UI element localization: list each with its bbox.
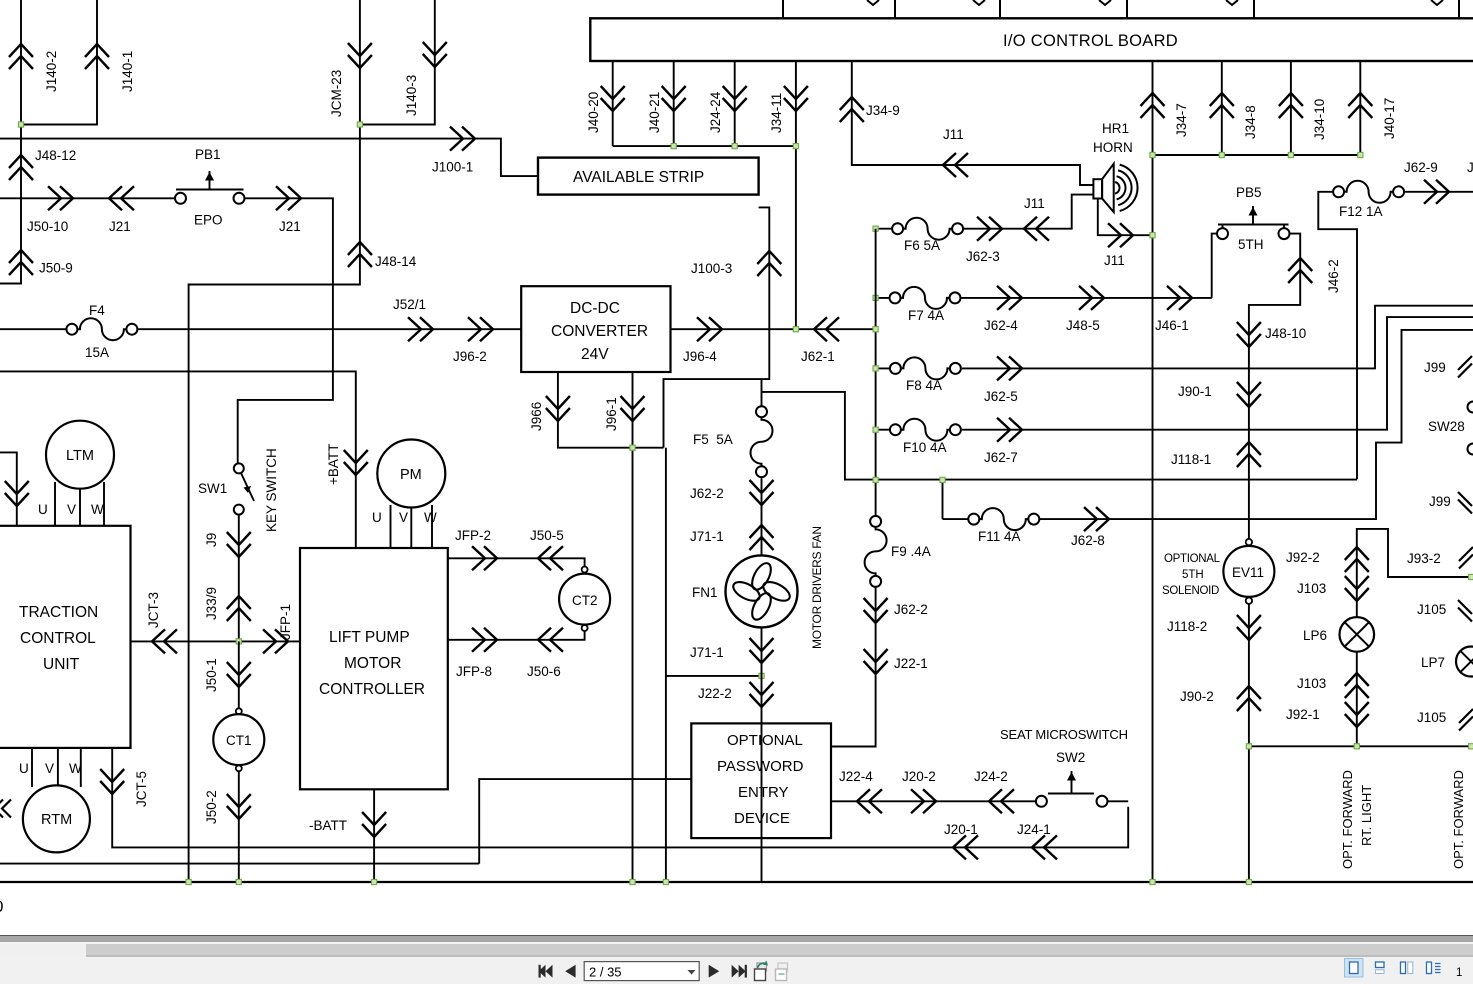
connector J34-8 chevron	[1210, 93, 1234, 118]
svg-text:EPO: EPO	[194, 213, 223, 228]
wire J34-10 column	[1290, 61, 1292, 155]
connector J93-2 edge marks	[1459, 547, 1473, 569]
fuse F4 15A	[66, 318, 137, 340]
connector J48-5 chevron	[1079, 286, 1104, 310]
speaker HR1 horn cone	[1102, 164, 1114, 212]
svg-text:1: 1	[1456, 967, 1462, 979]
connector JCT-5 chevron	[100, 769, 124, 794]
svg-text:J93-2: J93-2	[1407, 551, 1441, 566]
svg-text:U: U	[372, 510, 382, 525]
svg-text:J100-3: J100-3	[691, 261, 732, 276]
fuse F7 4A	[890, 287, 961, 309]
svg-text:J966: J966	[529, 402, 544, 431]
wire F8 row y=368.4	[876, 306, 1473, 369]
toolbar next button	[709, 965, 747, 978]
connector JFP-1 chevron	[263, 629, 288, 653]
svg-text:J34-10: J34-10	[1312, 99, 1327, 140]
svg-text:J99: J99	[1429, 494, 1451, 509]
svg-text:I/O CONTROL BOARD: I/O CONTROL BOARD	[1003, 32, 1178, 50]
svg-text:U: U	[19, 761, 29, 776]
svg-text:J90-2: J90-2	[1180, 689, 1214, 704]
svg-text:CT1: CT1	[226, 733, 252, 748]
svg-text:LP7: LP7	[1421, 655, 1445, 670]
svg-text:LP6: LP6	[1303, 628, 1327, 643]
connector J34-11 chevron	[784, 86, 808, 111]
svg-text:J50-2: J50-2	[204, 790, 219, 824]
svg-text:J62-3: J62-3	[966, 249, 1000, 264]
node fan junction	[759, 673, 764, 678]
svg-text:LIFT PUMP: LIFT PUMP	[329, 629, 410, 646]
node J34-11 junction on rail	[793, 327, 798, 332]
svg-text:J20-2: J20-2	[902, 769, 936, 784]
connector J62-9 chevron	[1424, 180, 1449, 204]
svg-text:F6 5A: F6 5A	[904, 238, 940, 253]
connector J40-17 chevron	[1348, 93, 1372, 118]
svg-text:J96-1: J96-1	[604, 397, 619, 431]
svg-text:J103: J103	[1297, 676, 1326, 691]
wire feeder bus vertical x=875.6	[875, 229, 877, 516]
svg-text:J140-3: J140-3	[404, 75, 419, 116]
wire J34-9 column and horn feed	[852, 61, 1094, 185]
svg-text:OPT. FORWARD: OPT. FORWARD	[1451, 770, 1466, 869]
svg-text:J118-1: J118-1	[1171, 452, 1211, 467]
wire EPO row y=198.3	[0, 197, 175, 199]
svg-text:MOTOR: MOTOR	[344, 655, 401, 672]
node strip bus junctions	[671, 144, 676, 149]
svg-text:J21: J21	[279, 219, 301, 234]
node junction J140	[18, 122, 23, 127]
node F8 feeder junction	[873, 366, 878, 371]
svg-text:FN1: FN1	[692, 585, 718, 600]
connector J22-4 chevron	[857, 789, 882, 813]
svg-text:J62-8: J62-8	[1071, 533, 1105, 548]
connector J11 right chevron below horn	[1108, 223, 1133, 247]
wire LTM U V W leads	[55, 482, 104, 526]
wire available strip bus y=146.1	[613, 145, 796, 147]
fuse F10 4A	[890, 419, 961, 441]
lamp LP6	[1340, 617, 1375, 652]
toolbar next-view icon disabled	[776, 963, 788, 981]
wire CT1 column	[238, 641, 240, 882]
svg-text:J46-1: J46-1	[1155, 318, 1189, 333]
svg-text:W: W	[69, 761, 82, 776]
wire JFP-8 row y=639.8	[448, 631, 585, 640]
connector J100-1 chevron	[450, 127, 475, 151]
box I/O CONTROL BOARD	[590, 18, 1473, 61]
svg-text:J9: J9	[204, 533, 219, 547]
svg-text:W: W	[91, 502, 104, 517]
svg-text:J100-1: J100-1	[432, 160, 473, 175]
connector J140-3 chevron	[423, 42, 447, 67]
connector LTM left chevron	[5, 481, 29, 506]
wire F10 row y=429.7	[876, 317, 1473, 430]
wire J40-21 column	[673, 61, 675, 146]
wire J140-1 column x=97	[21, 0, 97, 125]
wire DC-DC outputs J966 J96-1	[558, 372, 664, 882]
svg-text:5TH: 5TH	[1182, 569, 1204, 581]
svg-text:J48-5: J48-5	[1066, 318, 1100, 333]
svg-text:DEVICE: DEVICE	[734, 810, 790, 827]
fuse F12 1A	[1333, 181, 1404, 203]
motor LTM	[46, 421, 114, 489]
svg-text:0: 0	[0, 897, 3, 916]
svg-text:J48-14: J48-14	[375, 254, 417, 269]
svg-text:J34-11: J34-11	[769, 93, 784, 133]
wire RTM U V W leads	[32, 748, 81, 787]
connector J46-2 chevron	[1288, 258, 1312, 283]
svg-text:J40-21: J40-21	[647, 92, 662, 133]
svg-text:RTM: RTM	[41, 812, 72, 828]
svg-text:V: V	[45, 761, 54, 776]
svg-text:F7 4A: F7 4A	[908, 308, 944, 323]
svg-text:J11: J11	[1104, 253, 1125, 268]
svg-text:J103: J103	[1297, 581, 1326, 596]
connector J40-21 chevron	[662, 86, 686, 111]
fan FN1	[726, 555, 798, 627]
node F6 feeder junction	[873, 226, 878, 231]
svg-text:J46-2: J46-2	[1326, 259, 1341, 293]
wire horn bottom to J34-7	[1098, 199, 1153, 236]
connector J71-1 chevron fan top	[750, 525, 774, 550]
svg-text:J62-9: J62-9	[1404, 160, 1438, 175]
wire PB5 left leg to J46-1 row	[1212, 225, 1223, 298]
connector J118-2 chevron	[1237, 615, 1261, 640]
svg-text:OPT. FORWARD: OPT. FORWARD	[1340, 770, 1355, 869]
connector J105 upper edge marks	[1458, 600, 1472, 622]
connector J34-10 chevron	[1279, 93, 1303, 118]
svg-text:F4: F4	[89, 303, 105, 318]
connector J50-2 chevron	[227, 794, 251, 819]
svg-text:F9 .4A: F9 .4A	[891, 544, 931, 559]
svg-text:F8 4A: F8 4A	[906, 378, 942, 393]
wire F7 row y=297.9	[876, 297, 1212, 299]
connector J21 left chevron	[109, 186, 134, 210]
svg-text:F10 4A: F10 4A	[903, 440, 947, 455]
svg-text:F5 5A: F5 5A	[693, 432, 733, 447]
connector JCT-3 chevron	[152, 629, 177, 653]
svg-text:HR1: HR1	[1102, 121, 1129, 136]
fuse F8 4A	[890, 357, 961, 379]
solenoid EV11	[1246, 539, 1252, 545]
box AVAILABLE STRIP	[538, 158, 759, 195]
connector J96-4 chevron	[697, 317, 722, 341]
svg-text:J48-12: J48-12	[35, 148, 76, 163]
svg-text:JCM-23: JCM-23	[329, 70, 344, 117]
svg-text:SW1: SW1	[198, 481, 227, 496]
svg-text:J24-2: J24-2	[974, 769, 1008, 784]
box OPTIONAL PASSWORD ENTRY DEVICE	[691, 723, 831, 838]
svg-text:J62-2: J62-2	[690, 486, 724, 501]
connector JCM-23 chevron	[348, 43, 372, 68]
wire J40-17 column	[1359, 61, 1361, 155]
svg-text:CONVERTER: CONVERTER	[551, 323, 648, 340]
svg-text:J50-1: J50-1	[204, 658, 219, 692]
svg-text:SEAT MICROSWITCH: SEAT MICROSWITCH	[1000, 727, 1128, 742]
wire J96-4 row y=329.2 right of converter	[671, 328, 876, 330]
wire J24-24 column	[734, 61, 736, 146]
svg-text:J140-1: J140-1	[120, 51, 135, 92]
svg-text:5TH: 5TH	[1238, 237, 1264, 252]
wire PM U V W leads	[391, 505, 433, 548]
connector J34-9 chevron	[840, 97, 864, 122]
node right bus junctions	[1246, 744, 1251, 749]
connector J48-12 chevron	[9, 155, 33, 180]
svg-text:J20-1: J20-1	[944, 822, 978, 837]
wire SW2 row y=801.3	[831, 800, 1036, 802]
connector J33/9 chevron	[227, 596, 251, 621]
connector J52/1 chevron	[408, 317, 433, 341]
node F7 feeder junction	[873, 295, 878, 300]
svg-text:J99: J99	[1424, 360, 1446, 375]
wire F6 row y=228.7	[876, 195, 1094, 229]
svg-text:JFP-2: JFP-2	[455, 528, 491, 543]
svg-text:W: W	[424, 510, 437, 525]
svg-text:24V: 24V	[581, 346, 609, 363]
svg-text:J71-1: J71-1	[690, 529, 724, 544]
svg-text:SOLENOID: SOLENOID	[1162, 585, 1219, 597]
connector J92-2 chevron	[1345, 547, 1369, 572]
connector J90-2 chevron	[1237, 686, 1261, 711]
connector J22-1 chevron	[864, 649, 888, 674]
wire fan feed drop x=665.9	[666, 448, 762, 882]
wire JCM-23 column x=359.9	[189, 0, 360, 882]
motor RTM	[23, 785, 90, 852]
key switch SW1	[234, 463, 244, 473]
wire EV11 column to bottom	[1248, 604, 1250, 882]
connector +BATT chevron	[344, 450, 368, 475]
connector J62-8 chevron	[1084, 507, 1109, 531]
svg-text:PASSWORD: PASSWORD	[717, 758, 804, 775]
connector J99 lower edge marks	[1458, 492, 1472, 514]
svg-text:J24-1: J24-1	[1017, 822, 1051, 837]
svg-text:SW28: SW28	[1428, 419, 1465, 434]
wire bottom bus y=882	[0, 881, 1473, 883]
wire F9 column x=875.6	[831, 586, 876, 747]
svg-text:F11 4A: F11 4A	[978, 529, 1021, 544]
speaker HR1 horn driver rect	[1093, 179, 1102, 198]
lamp LP7 at edge	[1456, 647, 1473, 677]
svg-text:PB5: PB5	[1236, 185, 1262, 200]
svg-text:J22-4: J22-4	[839, 769, 873, 784]
wire JCT-5 drop and long row y=847.4	[112, 748, 1128, 848]
connector J48-10 chevron	[1237, 322, 1261, 347]
wire J40-20 column	[612, 61, 614, 146]
fuse F5 5A vertical	[751, 406, 773, 477]
connector J96-2 chevron	[468, 317, 493, 341]
svg-text:U: U	[38, 502, 48, 517]
connector J105 lower edge marks	[1459, 709, 1473, 731]
toolbar layout buttons right	[1345, 959, 1463, 980]
svg-text:HORN: HORN	[1093, 140, 1133, 155]
svg-text:ENTRY: ENTRY	[738, 784, 789, 801]
wire SW1 to JCT-3 row x=238.8	[238, 515, 240, 642]
connector J48-14 chevron	[348, 242, 372, 267]
connector J103 chevron lower	[1345, 673, 1369, 698]
svg-text:J40-20: J40-20	[586, 92, 601, 133]
wire J34-8 column	[1221, 61, 1223, 155]
toolbar fast-backward button	[539, 965, 576, 978]
connector J9 chevron	[227, 532, 251, 557]
box DC-DC CONVERTER 24V	[521, 286, 670, 372]
svg-text:J52/1: J52/1	[393, 297, 426, 312]
svg-text:J90-1: J90-1	[1178, 384, 1212, 399]
svg-text:J11: J11	[943, 127, 964, 142]
svg-text:J96-4: J96-4	[683, 349, 717, 364]
svg-text:JFP-1: JFP-1	[278, 604, 293, 640]
svg-text:PM: PM	[400, 467, 422, 483]
fuse F9 .4A vertical	[865, 516, 887, 587]
connector J62-3 chevron	[977, 217, 1002, 241]
svg-text:V: V	[67, 502, 76, 517]
svg-text:J118-2: J118-2	[1167, 619, 1207, 634]
svg-text:J: J	[1467, 160, 1473, 175]
node feeder junction on rail	[873, 327, 878, 332]
connector J21 right chevron	[276, 186, 301, 210]
microswitch SW2	[1036, 796, 1047, 807]
svg-text:J22-1: J22-1	[894, 656, 928, 671]
svg-text:J105: J105	[1417, 710, 1446, 725]
svg-text:J11: J11	[1024, 196, 1045, 211]
motor PM	[377, 440, 445, 508]
connector J11 left chevron F6 row	[1024, 217, 1049, 241]
connector J24-2 chevron	[989, 789, 1014, 813]
box TRACTION CONTROL UNIT	[0, 526, 131, 748]
connector JCT-4 cut chevron at left edge	[0, 800, 11, 818]
wire F12 row y=191.8	[1318, 192, 1473, 480]
connector JFP-2 chevron	[472, 546, 497, 570]
svg-text:J50-6: J50-6	[527, 664, 561, 679]
svg-text:J22-2: J22-2	[698, 686, 732, 701]
wire LTM left lead	[0, 452, 17, 525]
connector -BATT chevron	[362, 812, 386, 837]
svg-text:PB1: PB1	[195, 147, 221, 162]
connector J22-2 chevron	[750, 682, 774, 707]
connector J20-1 chevron	[953, 835, 978, 859]
svg-text:J50-10: J50-10	[27, 219, 68, 234]
connector J20-2 chevron	[911, 789, 936, 813]
connector J62-4 chevron	[997, 286, 1022, 310]
fuse F11 4A	[968, 508, 1039, 530]
connector J118-1 chevron	[1237, 442, 1261, 467]
wire F11 row y=519.1	[943, 330, 1473, 519]
svg-text:OPTIONAL: OPTIONAL	[1164, 553, 1221, 565]
connector J24-24 chevron	[723, 86, 747, 111]
svg-text:J92-2: J92-2	[1286, 550, 1320, 565]
svg-text:J34-7: J34-7	[1174, 103, 1189, 137]
svg-text:CT2: CT2	[572, 593, 598, 608]
node J33/9 junction	[236, 639, 241, 644]
node supply junctions	[873, 477, 878, 482]
toolbar previous-view icon	[755, 961, 769, 981]
speaker HR1 sound arcs	[1115, 165, 1137, 211]
wire JCT-3 row y=641.4	[131, 640, 301, 642]
svg-text:J140-2: J140-2	[44, 51, 59, 92]
wire EPO to J21 right segment	[238, 198, 333, 464]
svg-text:MOTOR DRIVERS FAN: MOTOR DRIVERS FAN	[810, 526, 824, 649]
node J93-2 edge	[1469, 574, 1473, 579]
connector J966 chevron	[546, 396, 570, 421]
node junction JCM-23/J140-3	[357, 122, 362, 127]
connector J103 chevron upper	[1345, 576, 1369, 601]
svg-text:J92-1: J92-1	[1286, 707, 1320, 722]
svg-text:J50-9: J50-9	[39, 261, 73, 276]
connector J140-2 chevron	[9, 44, 33, 69]
connector J62-7 chevron	[997, 418, 1022, 442]
svg-text:J62-4: J62-4	[984, 318, 1018, 333]
wire J140-3 column x=434.8	[360, 0, 435, 125]
wire PB5 right leg to J46-2/J48-10	[1249, 225, 1300, 543]
svg-text:EV11: EV11	[1232, 565, 1264, 580]
svg-text:J62-1: J62-1	[801, 349, 835, 364]
connector J100-3 chevron	[757, 251, 781, 276]
wire JFP-2 row y=558.3	[448, 558, 585, 566]
svg-text:J50-5: J50-5	[530, 528, 564, 543]
fuse F6 5A	[892, 218, 963, 240]
svg-text:JFP-8: JFP-8	[456, 664, 492, 679]
svg-text:+BATT: +BATT	[326, 444, 341, 485]
svg-text:J62-7: J62-7	[984, 450, 1018, 465]
node horn junction J34-7	[1150, 233, 1155, 238]
svg-text:J34-9: J34-9	[866, 103, 900, 118]
wire top edge dividers above I/O board	[783, 0, 1459, 18]
connector J50-6 chevron	[538, 628, 563, 652]
svg-text:CONTROLLER: CONTROLLER	[319, 681, 425, 698]
svg-text:J105: J105	[1417, 602, 1446, 617]
svg-text:F12 1A: F12 1A	[1339, 204, 1383, 219]
connector J140-1 chevron	[85, 44, 109, 69]
connector J50-5 chevron	[538, 546, 563, 570]
connector J71-1 chevron fan bottom	[750, 638, 774, 663]
svg-text:J71-1: J71-1	[690, 645, 724, 660]
svg-text:LTM: LTM	[66, 448, 94, 464]
toolbar page box	[584, 962, 699, 981]
svg-text:TRACTION: TRACTION	[19, 604, 98, 621]
wire F5 column x=761.5	[761, 392, 763, 883]
wire J34-11 column down to rail	[795, 61, 797, 329]
transformer CT2	[582, 567, 588, 573]
svg-text:J96-2: J96-2	[453, 349, 487, 364]
svg-text:SW2: SW2	[1056, 750, 1085, 765]
svg-text:JCT-5: JCT-5	[134, 771, 149, 807]
wire I/O right bus y=155	[1153, 154, 1361, 156]
svg-text:UNIT: UNIT	[43, 656, 80, 673]
svg-text:15A: 15A	[85, 345, 109, 360]
connector J11 left chevron horn top	[943, 153, 968, 177]
wire supply row y=479.6	[762, 379, 1358, 519]
wire password left feed y=779.1	[0, 779, 691, 864]
wire main 24V rail y=329.2 F4 row	[0, 328, 521, 330]
svg-text:KEY SWITCH: KEY SWITCH	[264, 448, 279, 532]
connector JFP-8 chevron	[472, 628, 497, 652]
node bottom bus junctions	[186, 879, 191, 884]
svg-text:J33/9: J33/9	[204, 587, 219, 620]
svg-text:OPTIONAL: OPTIONAL	[727, 732, 803, 749]
switch SW28 edge contacts	[1468, 402, 1473, 413]
connector J62-2 chevron F9 column	[864, 598, 888, 623]
wire right bus y=746.3	[1249, 745, 1473, 747]
connector J50-10 chevron	[48, 186, 73, 210]
svg-text:2 / 35: 2 / 35	[589, 965, 622, 980]
connector J50-1 chevron	[227, 662, 251, 687]
svg-text:CONTROL: CONTROL	[20, 630, 96, 647]
svg-text:J62-2: J62-2	[894, 602, 928, 617]
connector J92-1 chevron	[1345, 702, 1369, 727]
node F10 feeder junction	[873, 427, 878, 432]
wire J34-7 column full	[1152, 61, 1154, 882]
svg-text:RT. LIGHT: RT. LIGHT	[1359, 785, 1374, 846]
svg-text:J62-5: J62-5	[984, 389, 1018, 404]
pushbutton PB5	[1217, 228, 1228, 239]
